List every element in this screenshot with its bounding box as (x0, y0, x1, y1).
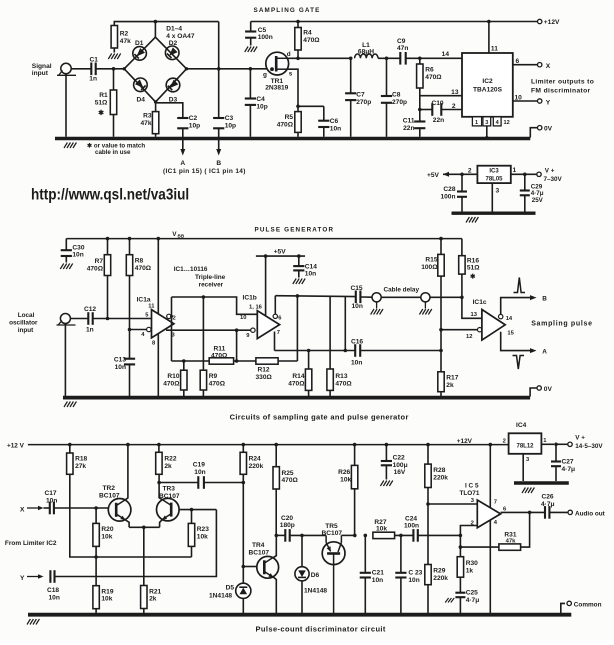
svg-text:D5: D5 (226, 585, 235, 592)
svg-text:1k: 1k (466, 567, 474, 574)
capacitor C3 10p (213, 115, 236, 129)
resistor R17 2k (438, 372, 459, 396)
svg-text:IC3: IC3 (489, 169, 499, 175)
svg-text:4·7μ: 4·7μ (466, 597, 480, 604)
svg-text:10k: 10k (101, 596, 112, 603)
svg-text:✱: ✱ (98, 109, 104, 117)
node bridge left/right/bottom vertices (123, 67, 189, 104)
svg-text:51Ω: 51Ω (467, 265, 480, 272)
svg-text:13: 13 (451, 89, 459, 96)
svg-text:C26: C26 (542, 494, 554, 501)
svg-text:R6: R6 (425, 67, 434, 74)
node 0V terminal (top section) (530, 126, 552, 138)
svg-text:Local: Local (18, 312, 35, 319)
svg-text:27k: 27k (75, 463, 86, 470)
svg-text:14: 14 (506, 316, 513, 322)
svg-text:d: d (287, 51, 291, 58)
capacitor C23 10n (395, 570, 422, 614)
svg-text:BC107: BC107 (322, 530, 343, 537)
label IC1 10116 triple-line receiver (174, 266, 226, 289)
svg-text:IC4: IC4 (516, 422, 527, 429)
resistor R24 220k (240, 443, 264, 483)
svg-text:R21: R21 (149, 588, 161, 595)
caption circuits of sampling gate (230, 412, 409, 421)
diode D5 1N4148 (209, 583, 251, 613)
svg-text:220k: 220k (433, 575, 448, 582)
svg-text:7–30V: 7–30V (544, 176, 563, 183)
svg-text:R4: R4 (303, 30, 312, 37)
svg-text:FM discriminator: FM discriminator (531, 87, 591, 94)
svg-text:10k: 10k (376, 526, 387, 533)
wire TR3 collector to C19 line (157, 481, 198, 485)
svg-text:X: X (20, 507, 25, 514)
transistor TR5 BC107 (common-base, emitter left riser, collector right riser) (322, 523, 346, 613)
resistor R19 10k (93, 586, 114, 613)
svg-text:D1–4: D1–4 (166, 26, 182, 33)
capacitor C9 47n (397, 38, 408, 65)
resistor R12 330ohm (256, 358, 279, 381)
svg-text:25V: 25V (532, 197, 544, 204)
svg-text:1n: 1n (89, 76, 97, 83)
svg-text:IC1b: IC1b (243, 295, 257, 302)
svg-text:C27: C27 (562, 459, 574, 466)
svg-text:10p: 10p (256, 103, 267, 110)
svg-text:C13: C13 (114, 357, 126, 364)
svg-text:10k: 10k (101, 533, 112, 540)
svg-text:I C 5: I C 5 (465, 483, 479, 490)
wire main signal line bridge right to TR1 gate (187, 67, 272, 71)
op-amp IC1a (10116 line receiver) (137, 297, 174, 347)
svg-text:C8: C8 (392, 92, 401, 99)
wire R24 node down to TR4 base node and D5 (242, 483, 246, 584)
wire input connector down to ground rail (64, 324, 66, 397)
svg-text:2N3819: 2N3819 (265, 85, 288, 92)
svg-text:R3: R3 (143, 113, 152, 120)
svg-text:78L05: 78L05 (485, 177, 503, 183)
svg-text:R13: R13 (335, 373, 347, 380)
svg-text:Y: Y (20, 575, 25, 582)
capacitor C7 270p (345, 58, 371, 137)
svg-text:0V: 0V (544, 126, 553, 133)
wire IC5 output to C26 (501, 511, 545, 515)
svg-text:1: 1 (475, 120, 478, 126)
wire +12V rail (bottom section) (28, 444, 509, 446)
wire bridge bottom to C2 (157, 103, 183, 118)
wire R28 node to IC5 pin 3 (428, 503, 477, 505)
wire R31 to output node (521, 512, 530, 547)
capacitor C24 100n (404, 516, 419, 542)
svg-text:R16: R16 (467, 258, 479, 265)
op-amp IC5 TL071 (460, 483, 508, 528)
wire TR3 base to Y riser (179, 508, 216, 512)
ground below IC4 bar (522, 488, 534, 494)
svg-text:Cable delay: Cable delay (384, 287, 420, 294)
IC1b pin 9 bubble (246, 328, 255, 339)
svg-text:R25: R25 (282, 470, 294, 477)
capacitor C15 10n (351, 285, 363, 310)
IC2 bottom pins 1 3 4 12 (472, 117, 509, 126)
resistor R1 51 ohm (star) (95, 69, 117, 137)
svg-text:13: 13 (471, 312, 478, 318)
svg-text:78L12: 78L12 (516, 443, 534, 449)
svg-text:C1: C1 (90, 57, 99, 64)
svg-text:Pulse-count discriminator circ: Pulse-count discriminator circuit (256, 625, 386, 634)
svg-text:470Ω: 470Ω (282, 477, 299, 484)
svg-text:47k: 47k (506, 538, 517, 544)
svg-text:10n: 10n (194, 469, 205, 476)
svg-text:470Ω: 470Ω (135, 265, 152, 272)
op-amp IC4 78L12 (503, 422, 542, 454)
svg-text:10n: 10n (372, 577, 383, 584)
wire input to C12 (70, 318, 88, 320)
svg-text:TR2: TR2 (103, 485, 116, 492)
svg-text:270p: 270p (392, 99, 407, 106)
svg-text:C3: C3 (225, 115, 234, 122)
svg-text:IC1a: IC1a (137, 297, 151, 304)
svg-text:22n: 22n (403, 125, 414, 132)
wire C1 to bridge left node (96, 67, 125, 71)
wire bias line R10/R11/R12 (172, 330, 298, 363)
svg-text:C10: C10 (432, 100, 444, 107)
label D1-4 4xOA47 (166, 26, 195, 40)
wire C23 drop (395, 534, 414, 573)
svg-text:R22: R22 (164, 456, 176, 463)
svg-text:12: 12 (504, 120, 510, 126)
svg-text:3: 3 (496, 188, 500, 195)
IC4 pin 3 riser (523, 454, 530, 481)
svg-text:Triple-line: Triple-line (195, 274, 226, 281)
wire IC1a out2 riser (to top route and R11 line) (170, 297, 173, 361)
svg-text:100n: 100n (404, 523, 419, 530)
wire TR4 emitter to ground rail (274, 577, 277, 613)
node local oscillator input connector (9, 312, 75, 334)
IC1c pin 12 bubble (478, 328, 482, 332)
capacitor C20 180p (280, 515, 295, 542)
title SAMPLING GATE (254, 7, 321, 14)
svg-text:B: B (542, 295, 547, 302)
svg-text:C2: C2 (189, 115, 198, 122)
resistor R23 10k (188, 510, 209, 547)
svg-text:470Ω: 470Ω (87, 265, 104, 272)
svg-text:11: 11 (148, 304, 155, 310)
ground below C14 (293, 279, 305, 285)
IC2 pin 11 riser (487, 20, 498, 53)
svg-text:SAMPLING GATE: SAMPLING GATE (254, 7, 321, 14)
resistor R28 220k (425, 443, 449, 565)
node Common terminal (561, 601, 602, 613)
capacitor C30 10n (61, 239, 85, 263)
svg-text:100μ: 100μ (393, 462, 408, 469)
svg-text:C16: C16 (351, 339, 363, 346)
resistor R13 470ohm (327, 369, 353, 396)
svg-text:A: A (542, 348, 547, 355)
resistor R30 1k (457, 557, 478, 593)
wire IC3 pin 1 to V+ terminal (511, 167, 563, 183)
svg-text:220k: 220k (249, 463, 264, 470)
IC1c output 15 riser to A (501, 331, 548, 356)
svg-text:470Ω: 470Ω (425, 74, 442, 81)
capacitor C22 100u 16V (381, 443, 408, 480)
svg-text:IC2: IC2 (482, 78, 493, 85)
svg-text:10n: 10n (305, 271, 316, 278)
resistor R29 220k (425, 565, 449, 614)
svg-text:47k: 47k (120, 38, 131, 45)
capacitor C1 1n (89, 57, 98, 83)
svg-text:C15: C15 (351, 285, 363, 292)
cable delay grounds (371, 302, 432, 315)
wire top-left rail (bridge top to R2 and B riser corner) (114, 22, 218, 48)
svg-text:BB: BB (178, 234, 185, 239)
label +12V near IC4 (457, 438, 473, 445)
wire pin6-line drop to C16 line (344, 296, 348, 352)
op-amp IC3 78L05 (477, 166, 510, 183)
svg-text:470Ω: 470Ω (288, 380, 305, 387)
svg-text:C 23: C 23 (408, 570, 422, 577)
capacitor C18 10n (47, 570, 60, 601)
svg-text:470Ω: 470Ω (335, 380, 352, 387)
wire TR3 collector to R22 (159, 474, 162, 499)
svg-text:(IC1 pin 15) ( IC1 pin 14): (IC1 pin 15) ( IC1 pin 14) (163, 168, 246, 175)
wire +5V to IC3 pin 2 (443, 168, 477, 177)
svg-text:http://www.qsl.net/va3iul: http://www.qsl.net/va3iul (31, 186, 189, 203)
op-amp IC1b (243, 295, 280, 339)
wire +12V top rail (251, 21, 538, 23)
capacitor C11 22n (403, 110, 426, 137)
svg-text:47n: 47n (397, 45, 408, 52)
resistor R7 470ohm (87, 237, 111, 319)
wire bias node down to R19 (crossing Y line) (95, 557, 97, 586)
svg-text:7: 7 (494, 500, 497, 506)
svg-text:input: input (18, 327, 34, 334)
svg-text:C17: C17 (45, 490, 57, 497)
resistor R25 470ohm (273, 443, 299, 536)
svg-text:A: A (180, 160, 185, 167)
svg-text:Audio out: Audio out (575, 510, 606, 517)
svg-text:4·7μ: 4·7μ (541, 501, 555, 508)
svg-text:Signal: Signal (32, 63, 52, 70)
node Y input (20, 574, 44, 582)
svg-text:2: 2 (452, 103, 456, 110)
svg-text:C22: C22 (393, 455, 405, 462)
svg-text:100n: 100n (258, 34, 273, 41)
resistor R10 470ohm (163, 361, 187, 396)
svg-text:4·7μ: 4·7μ (531, 190, 544, 197)
title PULSE GENERATOR (255, 227, 335, 234)
svg-text:D6: D6 (311, 572, 320, 579)
svg-text:10p: 10p (225, 122, 236, 129)
svg-text:g: g (263, 72, 267, 79)
svg-text:C7: C7 (356, 92, 365, 99)
capacitor C28 100n (440, 174, 467, 211)
svg-text:+12 V: +12 V (7, 443, 25, 450)
svg-text:R10: R10 (167, 373, 179, 380)
wire L1 to C9 (378, 57, 400, 61)
svg-text:1N4148: 1N4148 (304, 588, 327, 595)
svg-text:C14: C14 (305, 264, 317, 271)
svg-text:100Ω: 100Ω (421, 264, 438, 271)
svg-text:+5V: +5V (427, 172, 440, 179)
wire R15 node down through C16 junction to R17 (440, 330, 442, 372)
resistor R15 100ohm (421, 237, 444, 330)
diode bridge D1-D4 wires (124, 22, 186, 102)
capacitor C25 4-7u (445, 590, 479, 614)
IC1c output 14 bubble and riser to B (499, 295, 548, 322)
node X input (20, 506, 44, 514)
IC1a pin 8 riser to ground (157, 334, 159, 397)
diode D3 (166, 78, 180, 103)
svg-text:10: 10 (515, 95, 523, 102)
svg-text:C28: C28 (443, 186, 455, 193)
diode D6 1N4148 (295, 535, 328, 613)
svg-text:R30: R30 (466, 560, 478, 567)
resistor R16 51ohm (star) (459, 239, 481, 300)
wire feedback line to R31 (460, 546, 499, 548)
svg-text:16V: 16V (394, 469, 406, 476)
wire pin 12 line (439, 328, 477, 340)
IC2 pin 6 to X terminal (513, 58, 551, 70)
svg-text:R7: R7 (95, 258, 104, 265)
svg-text:C11: C11 (403, 118, 415, 125)
svg-text:470Ω: 470Ω (211, 352, 228, 359)
svg-text:10n: 10n (408, 577, 419, 584)
svg-text:1: 1 (513, 167, 517, 174)
svg-text:10n: 10n (72, 252, 83, 259)
wire IC3 ground bar (452, 211, 536, 214)
svg-text:D1: D1 (135, 40, 144, 47)
svg-text:C19: C19 (193, 462, 205, 469)
R13 riser (329, 296, 331, 369)
svg-text:2: 2 (468, 168, 472, 175)
capacitor C16 10n (275, 339, 443, 367)
svg-text:C25: C25 (466, 590, 478, 597)
svg-text:TLO71: TLO71 (460, 490, 480, 497)
wire IC5 pin 2 node (459, 526, 478, 557)
ground symbol below bottom rail (27, 619, 39, 625)
node 0V terminal (middle) (530, 386, 552, 397)
svg-text:D2: D2 (169, 40, 178, 47)
wire TR2 emitter / TR3 emitter common line (126, 520, 163, 529)
wire TR1 drain to R4 and L1 line (288, 57, 350, 61)
node +12V terminal (top) (538, 19, 560, 26)
svg-text:14: 14 (442, 51, 450, 58)
wire R16 node jog to IC1c pin 13 (462, 297, 482, 318)
svg-text:V +: V + (545, 168, 555, 175)
svg-text:470Ω: 470Ω (163, 380, 180, 387)
IC5 pin 4 riser to ground (489, 520, 491, 613)
svg-text:2k: 2k (164, 463, 172, 470)
svg-text:15: 15 (507, 331, 514, 337)
svg-text:+5V: +5V (274, 249, 287, 256)
wire top section ground rail (55, 137, 530, 141)
capacitor C5 100n (245, 22, 273, 46)
capacitor C4 10p (245, 69, 268, 137)
svg-text:R24: R24 (249, 456, 261, 463)
label IC1 pin15 / IC1 pin14 (163, 168, 246, 175)
svg-text:220k: 220k (433, 474, 448, 481)
svg-text:22n: 22n (433, 117, 444, 124)
svg-text:R2: R2 (120, 31, 129, 38)
ground symbol below rail (left) (64, 143, 76, 149)
wire R6 bottom to IC2 pin 13 (420, 88, 462, 110)
resistor R27 10k (373, 519, 395, 539)
diode D4 (134, 78, 148, 104)
svg-text:Limiter outputs to: Limiter outputs to (531, 79, 594, 86)
ground below IC3 bar (466, 217, 478, 223)
IC3 pin 3 riser (492, 183, 499, 211)
capacitor C21 10n (360, 570, 385, 614)
svg-text:TR3: TR3 (163, 486, 176, 493)
resistor R14 470ohm (288, 351, 312, 397)
IC1a output 2 bubble (167, 314, 176, 321)
capacitor C2 10p (177, 115, 200, 129)
svg-text:C20: C20 (281, 515, 293, 522)
svg-text:C9: C9 (397, 38, 406, 45)
svg-text:oscillator: oscillator (9, 320, 38, 327)
svg-text:47k: 47k (140, 120, 151, 127)
wire top route out2 to IC1b pin 10 (172, 295, 258, 321)
wire TR5 collector to R26 node (341, 534, 354, 536)
svg-text:C5: C5 (258, 27, 267, 34)
resistor R22 2k (156, 443, 177, 474)
IC5 pin 7 riser to +12V (489, 443, 493, 508)
svg-text:R1: R1 (99, 92, 108, 99)
svg-text:R12: R12 (258, 367, 270, 374)
pulse glyph positive (514, 278, 526, 293)
svg-text:R28: R28 (433, 467, 445, 474)
wire TR1 source to R5 (288, 69, 298, 106)
svg-text:1n: 1n (86, 327, 94, 334)
svg-text:4·7μ: 4·7μ (562, 466, 576, 473)
svg-text:470Ω: 470Ω (303, 37, 320, 44)
svg-text:From Limiter IC2: From Limiter IC2 (5, 540, 57, 547)
label limiter outputs (531, 79, 594, 95)
svg-text:10k: 10k (340, 476, 351, 483)
resistor R4 470ohm (295, 20, 321, 59)
svg-text:s: s (289, 71, 293, 78)
wire VBB rail (66, 238, 462, 240)
svg-text:V: V (172, 231, 177, 238)
svg-text:Y: Y (546, 100, 551, 107)
capacitor C26 4-7u (541, 494, 555, 519)
svg-text:R19: R19 (101, 588, 113, 595)
svg-text:C30: C30 (72, 244, 84, 251)
node +5V arrow (427, 172, 449, 179)
ground below R2 (108, 54, 120, 60)
svg-text:R17: R17 (446, 375, 458, 382)
svg-text:R9: R9 (209, 373, 218, 380)
svg-text:3: 3 (485, 120, 488, 126)
svg-text:10n: 10n (46, 497, 57, 504)
resistor R20 10k (93, 508, 114, 557)
svg-text:4 x OA47: 4 x OA47 (166, 33, 195, 40)
resistor R26 10k (338, 443, 358, 537)
wire C9 to IC2 pin 14 (406, 51, 462, 60)
ground below C5 (245, 47, 257, 53)
wire C24 to IC5 pin2 node (418, 534, 461, 536)
svg-text:2k: 2k (149, 596, 157, 603)
svg-text:R14: R14 (292, 373, 304, 380)
transistor TR1 2N3819 (JFET) (263, 51, 293, 92)
label star or value to match cable in use (87, 143, 145, 157)
svg-text:X: X (546, 63, 551, 70)
capacitor C10 22n, wire to IC2 pin 2 (418, 100, 462, 124)
svg-text:R15: R15 (425, 257, 437, 264)
wire C19 to R24 node (204, 481, 245, 485)
svg-text:330Ω: 330Ω (256, 374, 273, 381)
capacitor C12 1n (84, 306, 96, 334)
IC1b pins 1,16 riser (265, 256, 267, 316)
svg-text:100n: 100n (440, 193, 455, 200)
